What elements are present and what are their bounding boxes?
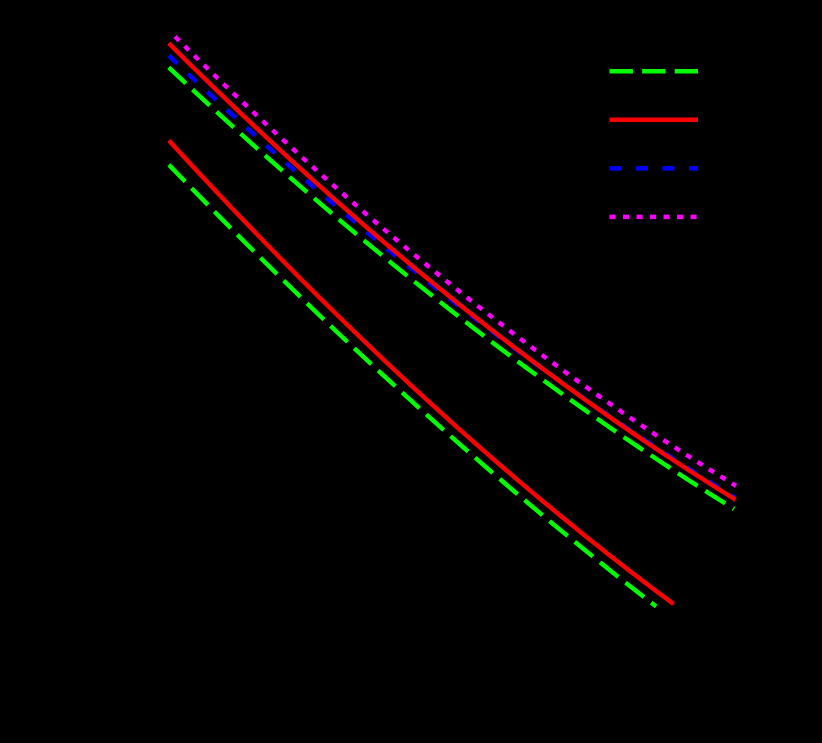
legend sample 4: magenta dotted: [610, 215, 699, 220]
curve green dashed (upper group, lowest of four): [169, 67, 734, 509]
curve green dashed (lower group): [169, 165, 656, 607]
curve red solid (lower group): [169, 141, 674, 605]
curve red solid (upper group): [169, 43, 736, 500]
curve magenta dotted (upper group, topmost): [175, 37, 736, 486]
legend sample 2: red solid: [610, 117, 699, 122]
legend sample 1: green dashed: [610, 69, 699, 74]
curve blue dashed (upper group, under red): [169, 56, 735, 498]
legend sample 3: blue dashed: [610, 166, 699, 171]
